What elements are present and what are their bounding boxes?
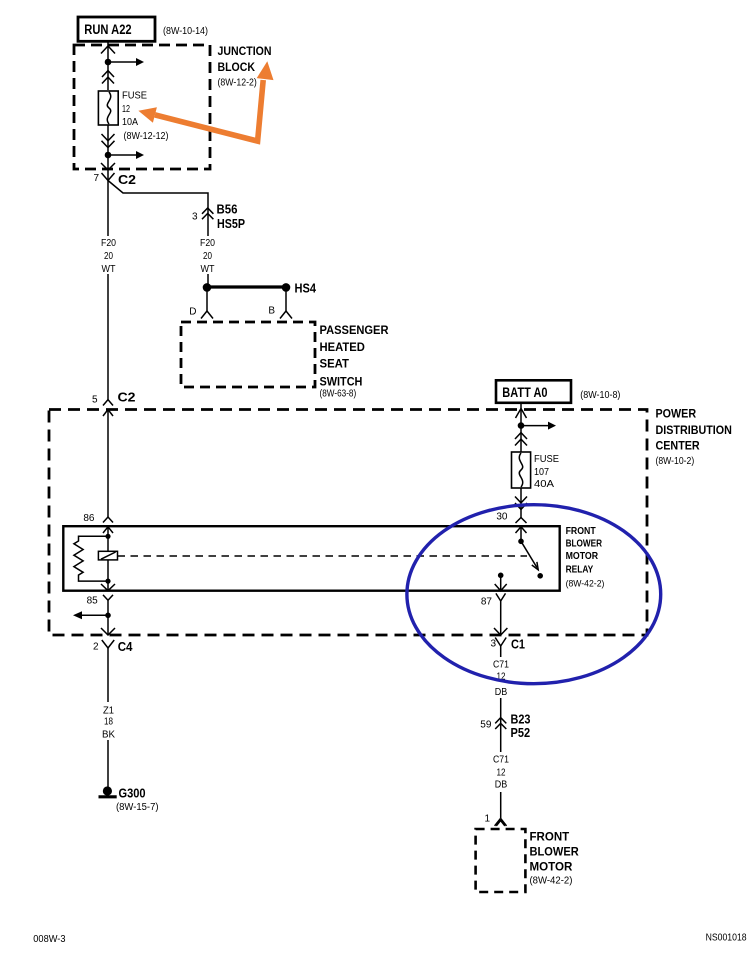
passenger heated seat switch label [320,323,389,400]
svg-text:3: 3 [490,639,496,650]
branch arrow left 85 [73,611,108,619]
svg-text:FRONT: FRONT [530,829,570,843]
svg-text:18: 18 [104,717,113,728]
svg-text:(8W-12-12): (8W-12-12) [124,131,169,142]
splice HS4 [203,281,317,296]
relay pin 30 [496,512,526,534]
svg-text:BK: BK [102,730,115,741]
svg-text:BLOWER: BLOWER [530,845,580,859]
svg-text:WT: WT [102,264,116,275]
svg-text:20: 20 [203,251,212,262]
svg-text:DB: DB [495,780,508,791]
orange callout arrows [138,61,273,141]
branch arrow right lower [108,151,144,159]
wire C4 to ground [107,648,109,787]
svg-text:RELAY: RELAY [566,564,594,575]
svg-text:C2: C2 [118,390,136,405]
svg-text:BLOWER: BLOWER [566,538,603,549]
svg-text:F20: F20 [101,238,116,249]
male arrow into PDC from BATT [516,409,527,419]
splice junction dot BATT [518,422,525,429]
wire BATT A0 into PDC [520,403,522,452]
svg-text:(8W-12-2): (8W-12-2) [218,77,257,88]
svg-text:(8W-15-7): (8W-15-7) [116,802,159,813]
male arrow pin 87 [495,584,507,591]
wire left column C2 to C2 [107,181,109,400]
female fork pin B [268,306,292,319]
wire label Z1 18 BK [99,702,118,741]
female fork pin D [189,307,213,319]
svg-text:1: 1 [484,814,490,825]
junction block label [218,44,272,89]
male arrow out of junction block [101,163,115,170]
svg-text:12: 12 [122,104,130,115]
svg-text:7: 7 [93,173,99,184]
svg-text:B: B [268,306,275,317]
relay highlight blue ellipse [407,505,661,684]
svg-text:RUN A22: RUN A22 [84,22,131,37]
junction block dashed box [74,45,210,169]
ground G300 [99,786,159,814]
splice junction dot 85 [105,613,111,619]
relay coil junction dot bottom [105,579,110,584]
svg-text:D: D [189,307,196,318]
wire RUN A22 into junction block [107,41,109,90]
svg-text:FRONT: FRONT [566,526,596,537]
svg-text:3: 3 [192,212,198,223]
svg-text:PASSENGER: PASSENGER [320,323,389,337]
male arrow out of PDC right [494,628,507,635]
svg-text:HEATED: HEATED [320,340,366,354]
svg-text:MOTOR: MOTOR [566,551,599,562]
svg-text:C1: C1 [511,637,525,652]
svg-text:86: 86 [83,513,95,524]
fuse F12 value label [122,90,169,142]
power source box RUN A22 [78,17,155,41]
wire pin 87 inside relay [500,575,502,590]
svg-text:WT: WT [201,264,215,275]
branch arrow right BATT [521,422,556,430]
passenger heated seat switch dashed box [181,322,315,387]
wire pin 85 to C4 [107,600,109,635]
in-line connector double chevron up [102,71,114,84]
front blower motor relay box [63,526,559,591]
male arrow into PDC [103,410,113,417]
front blower motor dashed box [476,829,526,892]
svg-text:FUSE: FUSE [534,454,559,465]
branch arrow right top [108,58,144,66]
svg-text:F20: F20 [200,238,215,249]
wire label C71 12 DB lower [491,752,511,792]
relay pin 85 fork [87,595,113,607]
svg-text:FUSE: FUSE [122,90,147,101]
connector C1 pin 3 [490,637,525,652]
wire pin 30 to switch pivot [520,527,522,541]
power distribution center dashed box [49,410,647,636]
in-line connector B56 pin 3 [192,202,245,231]
svg-text:C4: C4 [118,639,133,654]
svg-text:P52: P52 [511,725,531,740]
power source box BATT A0 [496,380,571,403]
fuse F12 [98,91,118,125]
relay switch pivot dot [518,539,524,545]
wire pin 86 to coil [107,527,109,551]
male arrow pin 85 [101,584,115,591]
wire coil to pin 85 [107,560,109,591]
relay solenoid symbol [98,551,117,560]
svg-text:40A: 40A [534,479,554,490]
relay pin 87 fork [481,593,506,607]
svg-text:B56: B56 [217,202,238,217]
relay switch throw contact dot [537,573,543,579]
svg-text:MOTOR: MOTOR [530,860,573,874]
male arrow into junction block [101,46,115,54]
in-line connector B23 P52 pin 59 [480,711,530,740]
svg-text:(8W-63-8): (8W-63-8) [320,389,357,400]
svg-text:10A: 10A [122,117,138,128]
svg-text:BATT A0: BATT A0 [502,385,547,400]
fuse F107 [512,452,531,488]
wire pin 87 to C1 [500,601,502,635]
wire label C71 12 DB upper [491,657,511,698]
in-line connector double chevron down BATT [515,497,527,510]
svg-text:(8W-42-2): (8W-42-2) [530,876,573,887]
svg-text:C71: C71 [493,755,509,766]
svg-text:008W-3: 008W-3 [33,934,66,945]
svg-text:JUNCTION: JUNCTION [218,44,272,58]
svg-text:CENTER: CENTER [656,439,700,453]
in-line connector double chevron up BATT [515,433,527,446]
front blower motor label [530,829,580,886]
relay coil resistor loop [74,536,108,581]
wire C2 to relay pin 86 [107,410,109,518]
svg-text:BLOCK: BLOCK [218,60,256,74]
svg-text:G300: G300 [119,786,146,801]
wire label F20 20 WT branch [198,236,217,275]
svg-text:HS4: HS4 [295,281,317,296]
wire C1 to blower motor [500,646,502,818]
wire HS4 to switch pin D [206,287,208,311]
relay pin 87 contact dot [498,573,504,579]
svg-text:HS5P: HS5P [217,216,245,231]
connector C4 pin 2 [93,639,133,654]
relay switch blade [521,541,538,570]
svg-text:DB: DB [495,687,508,698]
svg-text:POWER: POWER [656,406,697,420]
svg-text:Z1: Z1 [103,706,114,717]
wire HS4 to switch pin B [285,287,287,311]
svg-text:30: 30 [496,512,508,523]
relay mechanical dashed link [118,555,528,557]
svg-text:(8W-10-2): (8W-10-2) [656,456,695,467]
svg-text:87: 87 [481,597,493,608]
fuse F107 value label [534,454,559,490]
svg-text:59: 59 [480,720,492,731]
svg-text:2: 2 [93,642,99,653]
svg-text:NS001018: NS001018 [706,933,747,944]
svg-text:SWITCH: SWITCH [320,375,363,389]
svg-text:20: 20 [104,251,113,262]
wire fuse to connector C2 [107,125,109,180]
svg-text:(8W-10-8): (8W-10-8) [580,390,620,401]
svg-text:DISTRIBUTION: DISTRIBUTION [656,423,732,437]
connector C2 pin 5 [92,390,136,406]
splice junction dot lower [105,152,112,159]
svg-text:(8W-10-14): (8W-10-14) [163,26,208,37]
connector pin 1 fork [484,814,506,826]
svg-text:5: 5 [92,395,98,406]
connector C2 pin 7 [93,172,136,187]
svg-text:(8W-42-2): (8W-42-2) [566,579,605,590]
relay pin 86 [83,513,113,533]
wire fuse 107 to relay pin 30 [520,488,522,518]
power distribution center label [656,406,732,467]
svg-text:107: 107 [534,467,549,478]
front blower motor relay label [566,526,605,590]
relay coil junction dot top [105,534,110,539]
male arrow out of PDC left [101,628,115,635]
wire branch to B56 [108,181,208,288]
splice junction dot top [105,59,112,66]
svg-text:C71: C71 [493,660,509,671]
wire label F20 20 WT left [99,236,118,275]
svg-text:C2: C2 [118,172,136,187]
svg-text:12: 12 [497,768,506,779]
svg-text:SEAT: SEAT [320,357,350,371]
svg-text:85: 85 [87,596,99,607]
in-line connector double chevron down [102,134,115,148]
